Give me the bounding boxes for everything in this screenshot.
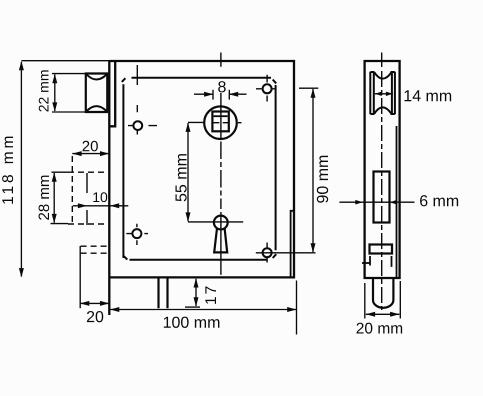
side latch spool right wall [392,72,395,115]
striker box inner vertical line [86,173,88,225]
svg-text:90 mm: 90 mm [315,155,332,204]
svg-text:20: 20 [86,309,104,326]
side bottom cap [373,278,393,308]
spindle square hole 8mm [212,112,228,132]
spindle square horizontal centerline [214,122,242,124]
svg-text:6 mm: 6 mm [419,193,459,210]
contour corner dash top-left [122,78,126,82]
svg-text:20 mm: 20 mm [356,321,403,338]
side inner right line [396,126,398,277]
inner contour left edge [122,84,124,258]
keyhole shank [214,228,227,252]
side latch spool left wall [370,72,374,115]
14 mm dimension [375,93,393,95]
contour corner dash bottom-left [124,256,128,260]
right side inner notch line [291,211,294,277]
contour corner dash top-right [273,80,277,84]
17 dimension [185,306,200,308]
svg-text:22 mm: 22 mm [36,70,52,113]
118 mm dimension [21,60,109,62]
hole top-left cross [128,65,157,135]
90 mm dimension [299,87,318,89]
inner contour right edge [275,85,277,250]
hole top-left [133,121,142,130]
svg-text:20: 20 [82,138,99,155]
55 mm dimension [188,122,243,221]
inner contour top edge [132,77,272,79]
20 top dimension [72,153,109,155]
faceplate front edge line [108,61,110,316]
contour corner dash bottom-right [273,254,277,258]
22 mm dimension [52,74,86,112]
20 bottom dimension [79,246,81,308]
hole bottom-right cross [266,243,268,263]
side latch spool bottom [371,107,395,114]
striker box dashed outline [68,171,108,173]
inner contour bottom edge [130,259,267,261]
svg-text:28 mm: 28 mm [36,175,53,221]
latch bolt front face [86,74,108,113]
keyhole circle [214,216,228,230]
latch bolt bottom bevel arc [86,106,107,112]
vertical centerline through spindle and keyhole [220,53,222,140]
100 mm dimension [296,281,298,335]
bottom tab [159,278,168,308]
svg-text:55 mm: 55 mm [174,153,191,202]
side tick [362,262,370,264]
side follower tall rect [374,172,390,223]
hole top-right cross [256,75,275,102]
svg-text:118 mm: 118 mm [0,133,17,205]
spindle hub circle [204,106,237,139]
svg-text:8: 8 [217,79,226,96]
svg-text:17: 17 [203,284,220,305]
10 dimension [73,205,129,207]
6 mm dimension [339,201,414,203]
svg-text:14 mm: 14 mm [403,88,452,105]
lock body outline [109,61,294,277]
side latch spool top [371,72,395,79]
latch bolt top bevel arc [86,74,107,80]
8 dimension [194,93,247,95]
line through bottom-right hole to 90mm dim [256,252,316,254]
side lower box stubs [370,256,392,267]
side vertical centerline [381,53,383,68]
svg-text:100 mm: 100 mm [163,315,221,332]
20 mm dimension [365,281,401,319]
hole bottom-right [263,248,272,257]
hole top-right [263,84,272,93]
side lower box [370,245,393,254]
28 mm dimension [51,172,69,223]
svg-text:10: 10 [92,189,108,205]
hole bottom-left cross [126,224,148,245]
lock body left edge upper segment with step [110,61,116,126]
side outer rectangle [365,61,400,278]
hole bottom-left [132,229,141,238]
